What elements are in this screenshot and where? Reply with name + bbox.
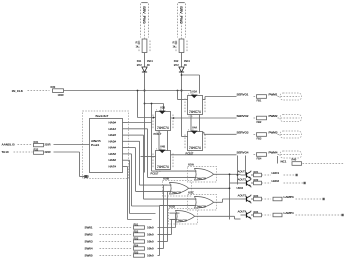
resistor FB4 [257,153,267,157]
connector PWM3 [280,131,302,138]
svg-text:LED1: LED1 [272,171,280,175]
wire [230,182,241,184]
svg-text:74HC74: 74HC74 [157,165,169,169]
svg-text:PWM4: PWM4 [269,151,278,155]
svg-text:BY2: BY2 [137,63,143,67]
wire [144,23,146,39]
resistor R54 [134,247,145,250]
svg-text:Pout1: Pout1 [91,143,99,147]
wire [214,201,223,203]
svg-text:FB3: FB3 [257,137,262,141]
wire [138,117,156,119]
wire [254,134,257,136]
svg-text:LAMP4: LAMP4 [284,211,294,215]
svg-text:1N41: 1N41 [147,59,154,63]
svg-text:220R: 220R [45,143,51,147]
svg-text:TA10: TA10 [2,150,9,154]
resistor R53 [134,240,145,243]
wire [182,74,200,76]
wire [100,248,133,250]
resistor R11 [142,39,147,53]
svg-text:74HC32: 74HC32 [178,218,188,222]
svg-text:HA2#: HA2# [109,133,117,137]
svg-text:U5C: U5C [188,190,195,194]
wire [28,90,50,92]
wire [64,90,192,92]
wire [145,103,164,105]
svg-text:SW01: SW01 [85,226,93,230]
wire [277,156,279,164]
svg-text:R11: R11 [136,41,141,45]
svg-text:R54: R54 [134,244,139,248]
resistor FB2 [257,116,267,120]
wire [254,96,257,98]
connector PWM1 [280,93,302,100]
resistor [273,197,282,201]
svg-text:74HC32: 74HC32 [197,204,207,208]
node J1 [144,90,146,92]
wire [203,99,206,101]
svg-text:FB1: FB1 [257,99,262,103]
wire [170,212,178,214]
wire [262,174,272,176]
svg-text:SERVO2: SERVO2 [237,114,249,118]
wire [100,234,133,236]
wire [128,147,136,149]
svg-text:Bock 8x7: Bock 8x7 [96,114,109,118]
svg-text:D12: D12 [174,59,179,63]
svg-text:HA5#: HA5# [109,152,117,156]
node SRV_PW2 [178,2,184,4]
svg-text:SW05: SW05 [85,254,93,258]
wire [195,215,235,217]
svg-text:R30: R30 [51,85,56,89]
svg-text:R40: R40 [292,157,297,161]
resistor R23 [254,197,262,201]
wire [100,241,133,243]
svg-text:10k0: 10k0 [147,226,154,230]
svg-text:100R: 100R [58,93,64,97]
wire [296,214,342,216]
node J3 [177,90,179,92]
connector PWM4 [280,151,302,158]
svg-text:R24: R24 [254,210,259,214]
wire [181,53,183,68]
svg-text:U5D: U5D [169,204,176,208]
svg-text:R53: R53 [134,237,139,241]
svg-text:SERVO3: SERVO3 [237,131,249,135]
wire [128,122,152,124]
svg-text:U5B: U5B [163,176,170,180]
svg-text:1N_CLK: 1N_CLK [12,89,24,93]
wire [262,214,272,216]
wire [284,174,296,176]
wire [189,187,230,189]
wire [128,140,140,142]
svg-text:FB4: FB4 [257,157,262,161]
node J4 [137,90,139,92]
svg-text:HA1#: HA1# [109,127,117,131]
wire [262,182,272,184]
resistor R40 [292,162,302,166]
svg-text:R21: R21 [254,170,259,174]
resistor R55 [134,254,145,257]
wire [158,131,160,151]
svg-text:SW04: SW04 [85,247,93,251]
wire [303,163,345,165]
wire [151,104,153,123]
svg-text:10k0: 10k0 [147,254,154,258]
wire [181,72,183,137]
wire [158,255,160,257]
wire [296,198,323,200]
wire [278,96,300,98]
svg-text:R23: R23 [254,194,259,198]
wire [100,227,133,229]
svg-text:74HC74: 74HC74 [157,126,169,130]
svg-text:PWM1: PWM1 [269,93,278,97]
wire [158,234,172,236]
svg-text:SW03: SW03 [85,240,93,244]
node J2 [181,74,183,76]
wire [190,115,192,132]
wire [237,156,239,185]
resistor FB1 [257,95,267,99]
svg-text:AANSL B: AANSL B [2,143,16,147]
module RN1 outline [83,111,129,179]
svg-text:FB2: FB2 [257,120,262,124]
svg-text:PC817: PC817 [154,132,162,136]
svg-text:R22: R22 [254,178,259,182]
svg-text:PWM3: PWM3 [269,131,278,135]
wire [141,156,156,158]
wire [158,227,176,229]
wire [181,23,183,39]
gate U5B outline [163,181,192,197]
resistor R21 [254,173,262,177]
wire [128,134,144,136]
node SRV_PW1 [141,2,147,4]
resistor R24 [254,213,262,217]
svg-text:PWM2: PWM2 [269,114,278,118]
svg-text:SW02: SW02 [85,233,93,237]
wire [18,144,33,146]
connector PWM2 [280,115,302,122]
svg-text:10k0: 10k0 [147,233,154,237]
svg-text:74HC74: 74HC74 [189,110,201,114]
wire [245,156,247,176]
wire [189,170,197,172]
wire [144,53,146,68]
svg-text:AOUT3: AOUT3 [238,193,247,197]
svg-text:HA7#: HA7# [109,165,117,169]
wire [182,136,188,138]
wire [278,117,300,119]
svg-text:HA4#: HA4# [109,146,117,150]
svg-text:74HC32: 74HC32 [197,176,207,180]
svg-text:LED2: LED2 [272,179,280,183]
wire [160,204,195,206]
svg-text:BY2: BY2 [174,63,180,67]
wire [54,151,80,153]
wire [128,159,130,161]
svg-text:PC817: PC817 [151,171,159,175]
wire [158,248,164,250]
wire [128,128,148,130]
svg-text:R12: R12 [173,41,178,45]
svg-text:AOUT4: AOUT4 [238,209,247,213]
svg-text:HA0#: HA0# [109,121,117,125]
gate U5D outline [169,209,198,225]
svg-text:NC1: NC1 [281,160,287,164]
wire [144,72,146,173]
gate U5C outline [188,195,217,211]
wire [54,144,90,146]
wire [214,173,241,175]
resistor R51 [134,226,145,229]
svg-text:10k0: 10k0 [147,247,154,251]
svg-text:UN02: UN02 [237,186,244,190]
svg-text:R51: R51 [134,223,139,227]
gate U5A outline [188,167,217,183]
svg-text:AOUT2: AOUT2 [238,177,247,181]
wire [189,198,197,200]
svg-text:HA6#: HA6# [109,158,117,162]
wire [127,166,129,168]
wire [262,198,272,200]
resistor FB3 [257,133,267,137]
svg-text:D11: D11 [137,59,142,63]
svg-text:HA3#: HA3# [109,139,117,143]
node J5 [229,173,231,175]
svg-text:74HC74: 74HC74 [189,146,201,150]
svg-text:R52: R52 [134,230,139,234]
svg-text:74HC32: 74HC32 [172,190,182,194]
wire [171,154,237,156]
wire [284,182,304,184]
svg-text:SRV_PW1: SRV_PW1 [142,6,147,25]
svg-text:SRV_PW2: SRV_PW2 [179,6,184,25]
wire [128,153,132,155]
wire [100,255,133,257]
svg-text:220R: 220R [45,150,51,154]
wire [278,154,300,156]
wire [14,151,33,153]
svg-text:SERVO4: SERVO4 [237,151,249,155]
wire [171,117,237,119]
svg-text:10k0: 10k0 [147,240,154,244]
resistor R52 [134,233,145,236]
wire [254,117,257,119]
wire [158,241,168,243]
resistor [273,213,282,217]
svg-text:LAMP3: LAMP3 [284,195,294,199]
resistor R12 [179,39,184,53]
svg-text:1N41: 1N41 [184,59,191,63]
svg-text:U5A: U5A [188,162,195,166]
svg-text:R55: R55 [134,251,139,255]
wire [203,131,205,133]
wire [164,184,172,186]
wire [254,154,257,156]
svg-text:SERVO1: SERVO1 [237,93,249,97]
resistor R22 [254,181,262,185]
wire [278,134,300,136]
